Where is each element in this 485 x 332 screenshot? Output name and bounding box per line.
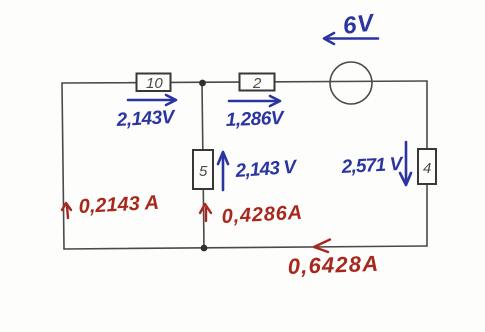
svg-text:1,286V: 1,286V	[225, 108, 285, 131]
svg-text:2,143 V: 2,143 V	[234, 157, 298, 182]
resistor R2	[240, 74, 275, 93]
svg-text:4: 4	[423, 160, 431, 177]
wire left	[62, 83, 64, 249]
arrow V R2	[229, 96, 280, 106]
arrow V R10	[128, 95, 176, 105]
svg-text:2,143V: 2,143V	[115, 107, 176, 131]
svg-text:5: 5	[199, 163, 208, 180]
arrow I left branch up	[62, 203, 71, 218]
wire bottom	[64, 246, 427, 249]
svg-text:0,4286A: 0,4286A	[221, 202, 303, 228]
arrow V R5 up	[218, 152, 228, 190]
arrow 6V left	[324, 33, 378, 44]
wire middle	[202, 83, 204, 248]
node bottom junction	[201, 245, 208, 252]
arrow V R4 down	[400, 142, 411, 185]
svg-text:2: 2	[252, 75, 262, 92]
wire right	[426, 81, 428, 246]
resistor R10	[137, 74, 171, 93]
source V1 circle	[330, 62, 372, 104]
wire top	[62, 81, 427, 83]
node top junction	[199, 80, 206, 87]
svg-text:2,571 V: 2,571 V	[340, 154, 404, 178]
resistor R4	[418, 149, 436, 184]
arrow I mid branch up	[200, 204, 211, 221]
arrow I bottom left	[314, 240, 330, 253]
svg-text:10: 10	[146, 75, 163, 92]
svg-text:0,6428A: 0,6428A	[287, 251, 379, 279]
resistor R5	[193, 150, 213, 189]
svg-text:6V: 6V	[341, 9, 376, 40]
svg-text:0,2143 A: 0,2143 A	[78, 192, 159, 218]
